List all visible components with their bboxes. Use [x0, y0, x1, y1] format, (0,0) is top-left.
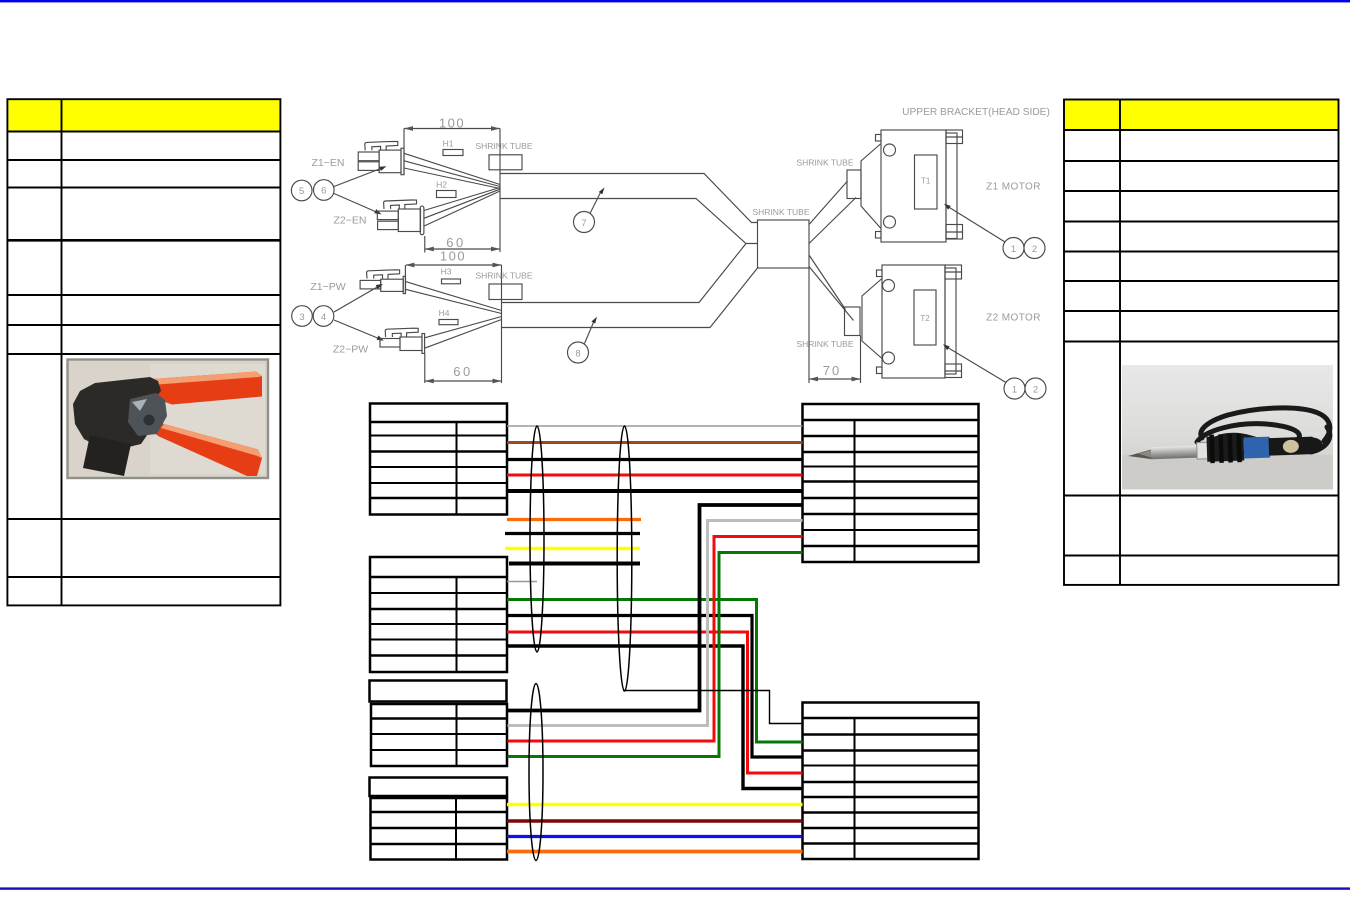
- callout circles 1 2 (T1): [944, 204, 1045, 259]
- svg-text:H1: H1: [443, 139, 454, 149]
- wire blue T4: [507, 835, 803, 838]
- crimp tool photo: [68, 360, 269, 479]
- callout circles 3 4: [292, 306, 334, 327]
- node wire-table T2-left grid: [370, 557, 507, 672]
- dimension 70: [809, 268, 861, 383]
- svg-text:100: 100: [440, 249, 466, 264]
- wire Z2-PW leads: [425, 317, 502, 349]
- svg-text:5: 5: [299, 186, 304, 197]
- connector T1: [861, 130, 963, 242]
- wire darkred T4: [507, 819, 803, 823]
- dimension 60 (PW section): [425, 353, 502, 383]
- node right parts-table grid: [1064, 100, 1339, 585]
- node cable ellipse A: [530, 426, 544, 652]
- wire center to T1: [809, 181, 856, 244]
- wire black 1: [507, 458, 803, 461]
- svg-text:8: 8: [575, 348, 580, 359]
- wire black stub 1: [505, 532, 640, 535]
- node vertical extension line EN: [499, 129, 501, 253]
- svg-text:SHRINK TUBE: SHRINK TUBE: [476, 141, 533, 151]
- svg-text:60: 60: [453, 364, 472, 379]
- wire black T2: [507, 616, 803, 758]
- node wire-table T4-left header: [370, 778, 508, 797]
- LEFT-TABLE: [7, 99, 280, 605]
- node wire-table right-upper grid: [803, 404, 979, 562]
- svg-text:SHRINK TUBE: SHRINK TUBE: [476, 271, 533, 281]
- wire center to T2: [809, 255, 854, 321]
- svg-text:H4: H4: [439, 308, 450, 318]
- arrow to Z2-EN: [334, 194, 382, 215]
- shrink tube EN: [476, 141, 533, 170]
- node wire-table T3-left header: [370, 681, 507, 702]
- svg-text:SHRINK TUBE: SHRINK TUBE: [753, 207, 810, 217]
- wire Z2-EN leads: [424, 188, 500, 227]
- wire green T3: [508, 553, 803, 757]
- svg-text:6: 6: [321, 186, 326, 197]
- wire red 1: [507, 474, 803, 477]
- svg-text:Z1−EN: Z1−EN: [312, 157, 345, 169]
- wire red T3: [508, 537, 803, 742]
- wire thin link ellipse to right table: [623, 691, 803, 724]
- callout circle 8: [568, 317, 598, 363]
- wire yellow stub: [505, 547, 640, 551]
- wire top blue border: [0, 0, 1350, 2]
- wire red T2: [507, 632, 803, 773]
- wire brown: [507, 441, 803, 444]
- dimension 100 (PW section): [405, 249, 501, 295]
- cable 8 outline: [502, 244, 758, 328]
- svg-text:2: 2: [1033, 384, 1038, 395]
- wire orange stub: [507, 518, 641, 521]
- svg-text:SHRINK TUBE: SHRINK TUBE: [797, 158, 854, 168]
- callout circles 5 6: [291, 180, 334, 201]
- node wire-table T4-left grid: [371, 798, 508, 860]
- wire gray T3: [508, 521, 803, 726]
- wire black T2 thick: [507, 646, 803, 789]
- wire orange T4: [507, 850, 803, 854]
- svg-text:4: 4: [321, 312, 326, 323]
- wire Z1-PW leads: [406, 282, 502, 314]
- svg-text:Z2 MOTOR: Z2 MOTOR: [986, 313, 1041, 324]
- node vertical extension line PW: [501, 265, 503, 383]
- connector T2: [862, 265, 962, 378]
- wire black 2 thick: [507, 489, 803, 493]
- crimp tool upper handle: [152, 372, 262, 405]
- arrow to Z1-PW: [334, 284, 383, 312]
- dimension 60 (EN section): [425, 235, 500, 253]
- svg-text:1: 1: [1011, 244, 1016, 255]
- svg-text:7: 7: [581, 218, 586, 229]
- node wire-table T1-left grid: [370, 404, 507, 515]
- wire gray short stub: [507, 581, 537, 583]
- connector Z1-EN: [358, 141, 404, 174]
- node left parts-table yellow header: [8, 100, 279, 131]
- callout circles 1 2 (T2): [943, 344, 1046, 399]
- node wire-table right-lower grid: [803, 703, 979, 860]
- node wire-table T3-left grid: [371, 704, 507, 766]
- node cable ellipse C: [529, 684, 543, 861]
- connector Z2-EN: [377, 200, 424, 235]
- dimension 100 (EN section): [404, 116, 500, 176]
- svg-text:3: 3: [299, 312, 304, 323]
- soldering iron cable: [1197, 408, 1330, 452]
- wire yellow T4: [507, 803, 803, 807]
- svg-text:H2: H2: [436, 180, 447, 190]
- connector Z2-PW: [380, 328, 425, 353]
- svg-text:1: 1: [1012, 384, 1017, 395]
- soldering iron body: [1127, 431, 1323, 466]
- wire green T2: [507, 600, 803, 743]
- arrow to Z2-PW: [334, 320, 384, 341]
- label H3: [441, 267, 461, 284]
- UPPER-DIAGRAM: [291, 107, 1049, 399]
- callout circle 7: [574, 188, 605, 233]
- label H4: [439, 308, 458, 325]
- wire bottom blue border: [0, 887, 1350, 889]
- wire black T3 thick: [508, 505, 803, 711]
- shrink tube PW: [476, 271, 533, 300]
- connector Z1-PW: [360, 270, 405, 294]
- shrink tube T1: [797, 158, 862, 199]
- shrink tube center: [753, 207, 810, 268]
- shrink tube T2: [797, 307, 861, 349]
- cable 7 outline: [500, 174, 758, 244]
- svg-text:T2: T2: [920, 314, 930, 323]
- svg-text:Z1−PW: Z1−PW: [310, 281, 345, 293]
- svg-text:UPPER BRACKET(HEAD SIDE): UPPER BRACKET(HEAD SIDE): [902, 107, 1050, 118]
- svg-text:T1: T1: [921, 177, 931, 186]
- svg-text:SHRINK TUBE: SHRINK TUBE: [797, 339, 854, 349]
- svg-text:Z1 MOTOR: Z1 MOTOR: [986, 182, 1041, 193]
- node cable ellipse B: [617, 426, 632, 691]
- label H1: [443, 139, 463, 156]
- svg-text:H3: H3: [441, 267, 452, 277]
- wire gray thin top: [507, 425, 803, 427]
- soldering iron photo: [1122, 365, 1333, 490]
- label H2: [436, 180, 456, 198]
- RIGHT-TABLE: [1064, 100, 1339, 585]
- svg-text:Z2−EN: Z2−EN: [334, 215, 367, 227]
- wire Z1-EN leads: [404, 153, 500, 188]
- svg-text:2: 2: [1032, 244, 1037, 255]
- node left parts-table grid: [7, 99, 280, 605]
- svg-text:Z2−PW: Z2−PW: [333, 344, 368, 356]
- wire black stub 2 thick: [509, 562, 640, 566]
- node right parts-table yellow header: [1065, 100, 1338, 129]
- LOWER-DIAGRAM: [370, 404, 979, 861]
- arrow to Z1-EN: [334, 166, 387, 186]
- svg-text:70: 70: [823, 363, 841, 378]
- crimp tool head: [73, 377, 161, 449]
- crimp tool lower handle: [149, 419, 262, 476]
